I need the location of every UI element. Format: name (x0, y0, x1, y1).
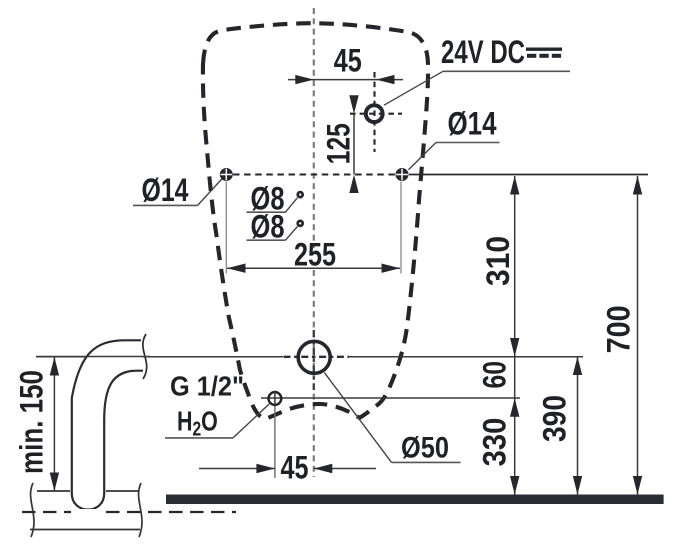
label O14 left: underline (133, 204, 198, 206)
dimension 45 bottom: right tail line (314, 468, 376, 470)
24V supply hole circle (366, 105, 383, 122)
svg-text:45: 45 (334, 43, 362, 79)
dim 700 top arrow (633, 176, 642, 195)
fixing hole O14 right (396, 168, 409, 181)
svg-text:Ø14: Ø14 (142, 172, 189, 208)
label O8 lower: leader (286, 227, 298, 241)
water supply pipe (white filled) (72, 340, 143, 509)
dimension 45 bottom: left arrow (256, 464, 275, 473)
dim 310 top arrow (510, 176, 519, 195)
dim 390 top arrow (573, 357, 582, 376)
dimension 390: line (577, 357, 579, 495)
water hole extension vertical line (274, 407, 276, 479)
extension line below left hole (225, 182, 227, 274)
dimension 255: line (227, 267, 400, 269)
label H2O: underline (165, 437, 233, 439)
hole O8 upper (298, 192, 303, 197)
svg-text:Ø50: Ø50 (401, 432, 449, 465)
label 24V DC: leader diagonal (384, 71, 443, 105)
dim min150 top arrow (50, 357, 59, 376)
label O14 left: leader diagonal (198, 179, 222, 205)
label O8 upper: underline (247, 211, 286, 213)
dimension min.150: line (53, 357, 55, 492)
svg-text:24V DC: 24V DC (441, 34, 525, 70)
dim min150 bottom arrow (50, 473, 59, 492)
flush level line over pipe (36, 356, 150, 358)
label 24V DC: dc symbol dashes (527, 54, 536, 58)
pipe break mark (143, 334, 147, 379)
floor bar (installation wall/floor line) (166, 495, 664, 505)
floor slab top line left (37, 490, 70, 492)
floor slab right break mark (139, 483, 142, 537)
svg-text:125: 125 (321, 123, 357, 164)
label H2O: leader diagonal (233, 404, 269, 438)
flush pipe circle O50 (298, 341, 330, 373)
svg-text:310: 310 (480, 236, 516, 286)
dim 700 bottom arrow (633, 476, 642, 495)
dimension 45 bottom: left tail line (199, 468, 275, 470)
svg-text:Ø14: Ø14 (448, 105, 497, 141)
water hole G1/2 circle (269, 392, 282, 405)
fixing hole O14 left (220, 168, 233, 181)
label 24V DC: dc symbol solid bar (526, 48, 562, 51)
dimension 45 bottom: right arrow (314, 464, 333, 473)
dimension 125: bottom arrow (349, 175, 358, 194)
svg-text:60: 60 (477, 361, 513, 389)
dimension 255: left arrow (227, 264, 246, 273)
svg-text:330: 330 (477, 418, 513, 467)
label 24V DC: underline (443, 70, 570, 72)
dimension 45 top: left arrow (295, 75, 314, 84)
right dimension column line x=514.7 (514, 176, 516, 495)
24V hole horizontal dashed crosshair (350, 113, 402, 115)
label O14 right: underline (436, 142, 500, 144)
pipe outer edge (72, 340, 143, 509)
extension line below right hole (400, 182, 402, 274)
dim 390 bottom arrow (573, 476, 582, 495)
dimension 125: top arrow (349, 95, 358, 114)
dim 330 bottom arrow (510, 476, 519, 495)
floor slab top line right (106, 490, 138, 492)
dim 330 top arrow (510, 398, 519, 417)
dimension 700: line (637, 176, 639, 495)
flush level extension line y=356.5 left part (36, 356, 283, 358)
centerline (vertical dash-dot axis) (313, 8, 315, 477)
holes level extension line y=174.5 right (409, 174, 648, 176)
label O50: leader diagonal (324, 373, 391, 463)
dimension 45 top: right arrow (376, 75, 395, 84)
dimension 125: line (353, 114, 355, 175)
floor slab left break mark (31, 483, 34, 537)
label O8 lower: underline (247, 239, 286, 241)
24V hole vertical dashed crosshair (373, 72, 375, 152)
svg-text:min. 150: min. 150 (14, 370, 50, 474)
svg-text:700: 700 (601, 305, 637, 353)
flush level centermark dash-dot through O50 circle (284, 356, 350, 358)
svg-text:255: 255 (294, 237, 336, 273)
floor slab bottom line (30, 529, 140, 531)
water hole cross vertical (274, 391, 276, 407)
svg-text:45: 45 (281, 450, 309, 486)
dim 310 bottom arrow (510, 338, 519, 357)
svg-text:390: 390 (537, 395, 573, 442)
svg-text:G 1/2": G 1/2" (170, 371, 244, 402)
flush level extension line y=356.5 right part (349, 356, 583, 358)
dimension 255: right arrow (382, 264, 401, 273)
floor dashed axis line (22, 511, 236, 513)
fixture outline (dashed ceramic body) (203, 23, 428, 419)
white mask under pipe over dashed line (71, 509, 105, 516)
label O14 right: leader diagonal (409, 143, 437, 170)
label O50: underline (392, 461, 461, 463)
dashed line between fixing holes (233, 173, 396, 175)
label O8 upper: leader (286, 198, 298, 212)
vertical centermark dash-dot through O50 circle (313, 330, 315, 390)
dimension 45 top: line (288, 79, 403, 81)
svg-text:Ø8: Ø8 (251, 209, 285, 245)
hole O8 lower (298, 221, 303, 226)
water level extension line y=398 (261, 397, 520, 399)
